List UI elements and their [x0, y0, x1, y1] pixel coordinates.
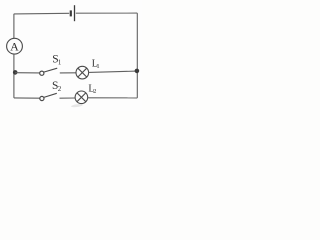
node (left junction of middle branch) — [13, 70, 18, 75]
wire (middle branch, left of S1) — [15, 72, 40, 74]
wire (middle branch, right of L1) — [89, 71, 137, 72]
wire (top, left of battery) — [14, 12, 69, 15]
lamp L1 — [76, 66, 89, 79]
wire (left vertical, above ammeter) — [13, 14, 15, 39]
ammeter A — [7, 38, 23, 54]
wire (bottom branch, left of S2) — [14, 97, 40, 99]
lamp L2 — [75, 91, 88, 104]
wire (middle branch, between S1 and L1) — [60, 72, 76, 74]
wire (bottom branch, right of L2) — [88, 97, 138, 99]
wire (left vertical, below ammeter) — [13, 54, 15, 98]
wire (right vertical) — [136, 13, 138, 98]
wire (bottom branch, between S2 and L2) — [60, 97, 76, 99]
svg-text:A: A — [10, 39, 19, 53]
switch S1 — [40, 68, 58, 75]
wire (top, right of battery) — [76, 12, 138, 14]
node (right junction of middle branch) — [135, 69, 140, 74]
battery — [71, 5, 75, 21]
switch S2 — [40, 93, 57, 100]
